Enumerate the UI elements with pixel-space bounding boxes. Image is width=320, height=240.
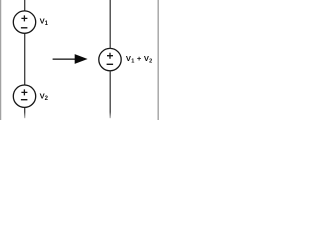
- V1+V2 minus sign: [107, 63, 114, 65]
- wire: below V1+V2 (fades at bottom edge): [109, 71, 111, 119]
- V1+V2 plus sign: [107, 53, 113, 59]
- voltage source V1+V2 (circle): [99, 48, 121, 70]
- figure left border: [0, 0, 2, 120]
- svg-text:V1: V1: [40, 16, 49, 27]
- figure right border: [157, 0, 159, 120]
- V1 plus sign: [21, 15, 27, 21]
- svg-text:V2: V2: [40, 91, 49, 102]
- equivalence arrow shaft: [53, 58, 77, 60]
- wire: between V1 and V2: [24, 33, 26, 85]
- V2 minus sign: [21, 99, 28, 101]
- voltage source V1 (circle): [13, 11, 35, 33]
- svg-text:V1 + V2: V1 + V2: [126, 54, 153, 64]
- V1 minus sign: [21, 27, 28, 29]
- voltage source V2 (circle): [13, 85, 35, 107]
- wire: below V2 (fades at bottom edge): [24, 107, 26, 118]
- V2 plus sign: [21, 89, 27, 95]
- equivalence arrow head: [75, 54, 88, 64]
- wire: top of V1 branch: [24, 0, 26, 11]
- wire: top of V1+V2 branch: [109, 0, 111, 49]
